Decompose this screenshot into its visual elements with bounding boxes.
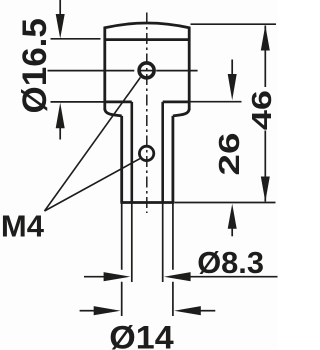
svg-text:46: 46 <box>246 90 277 130</box>
svg-text:Ø16.5: Ø16.5 <box>17 18 54 113</box>
svg-text:26: 26 <box>214 133 246 176</box>
svg-text:Ø8.3: Ø8.3 <box>197 246 264 280</box>
svg-text:M4: M4 <box>1 208 45 243</box>
svg-text:Ø14: Ø14 <box>109 320 174 350</box>
